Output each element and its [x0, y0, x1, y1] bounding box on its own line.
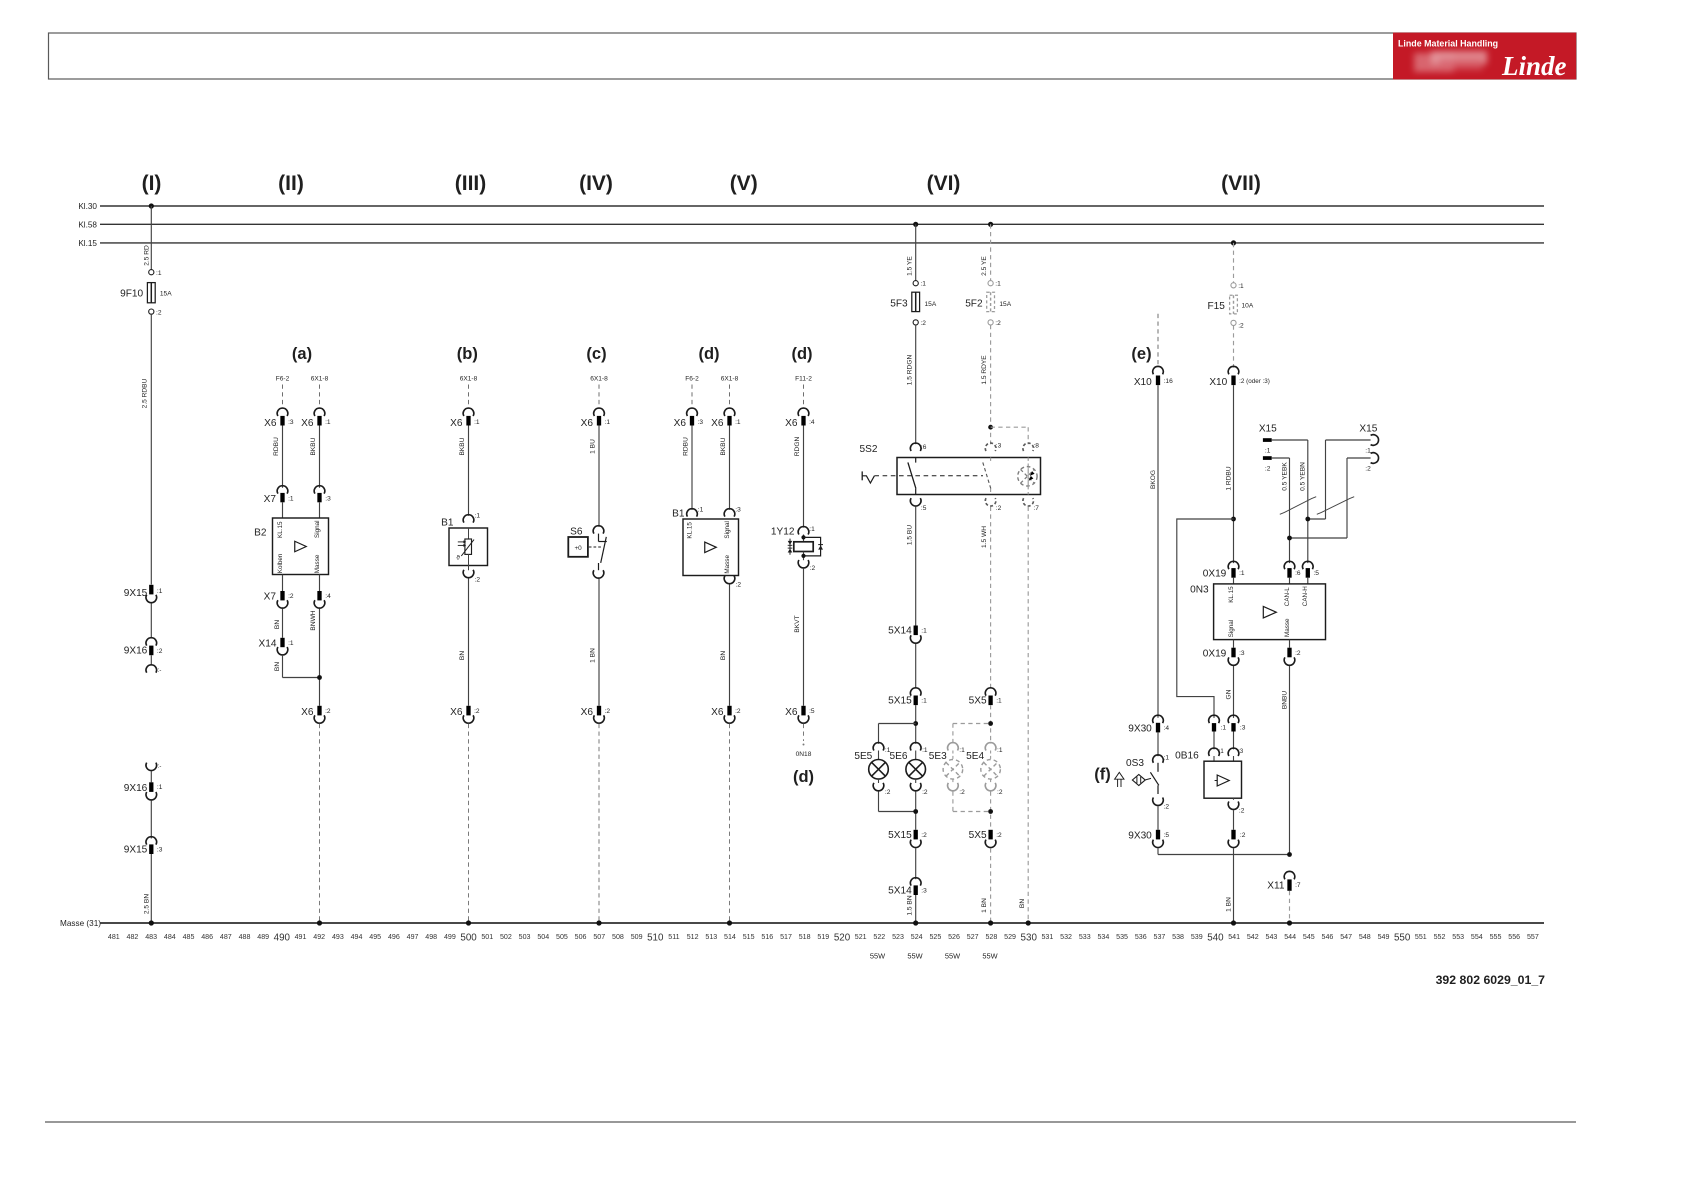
- connector X7 pin :1: [264, 486, 294, 505]
- svg-text:498: 498: [425, 933, 437, 941]
- page link (e): [1157, 314, 1159, 368]
- connector 5X14 pin :3: [888, 878, 927, 897]
- net 6X1-8: [721, 376, 739, 408]
- svg-text:2.5 RD: 2.5 RD: [144, 245, 151, 266]
- svg-text:X6: X6: [711, 707, 724, 718]
- svg-text:(a): (a): [292, 345, 312, 363]
- svg-text:Kl.58: Kl.58: [78, 220, 97, 229]
- svg-text:0.5 YEBK: 0.5 YEBK: [1281, 462, 1288, 491]
- connector X6 pin :1: [301, 408, 331, 429]
- svg-text:554: 554: [1471, 933, 1483, 941]
- wire: [1289, 640, 1291, 648]
- svg-text:497: 497: [407, 933, 419, 941]
- svg-text:9F10: 9F10: [120, 288, 143, 299]
- connector 5X15 pin :1: [888, 688, 927, 707]
- wire BKBU: [459, 426, 468, 516]
- svg-text::2: :2: [922, 789, 928, 796]
- svg-text:541: 541: [1228, 933, 1240, 941]
- svg-text::1: :1: [995, 280, 1001, 287]
- svg-text:9X15: 9X15: [124, 588, 148, 599]
- svg-text:Linde Material Handling: Linde Material Handling: [1398, 39, 1498, 49]
- wire RDGN: [794, 426, 803, 528]
- svg-text::1: :1: [996, 698, 1002, 705]
- svg-text:BN: BN: [720, 651, 727, 660]
- svg-text:BKBU: BKBU: [459, 437, 466, 455]
- wire BN: [459, 578, 468, 705]
- section label (b): [457, 345, 478, 363]
- connector 5X15 pin :2: [888, 830, 927, 848]
- svg-text:X6: X6: [450, 707, 463, 718]
- svg-text:5E4: 5E4: [966, 751, 984, 762]
- svg-text:55W: 55W: [907, 952, 922, 961]
- svg-text:518: 518: [799, 933, 811, 941]
- column header (I): [142, 172, 162, 195]
- connector X6 pin :3: [264, 408, 294, 429]
- svg-text::2: :2: [1265, 465, 1271, 472]
- svg-text:517: 517: [780, 933, 792, 941]
- svg-text:GN: GN: [1225, 689, 1232, 699]
- lamp wattage labels 55W: [870, 952, 998, 961]
- connector pin :3: [1228, 715, 1246, 731]
- svg-text:528: 528: [985, 933, 997, 941]
- lamp 5E3 (optional): [929, 743, 965, 796]
- sensor B2: [254, 518, 328, 575]
- svg-text:6X1-8: 6X1-8: [590, 376, 608, 383]
- svg-text:557: 557: [1527, 933, 1539, 941]
- wire 2.5 RD: [144, 206, 152, 270]
- ground junction 530: [1026, 920, 1031, 925]
- svg-text:0S3: 0S3: [1126, 758, 1144, 769]
- connector X15: [1259, 424, 1277, 473]
- svg-text:X6: X6: [785, 707, 798, 718]
- connector X15 (mating): [1359, 424, 1378, 473]
- svg-text:514: 514: [724, 933, 736, 941]
- wire to ground (page link): [468, 724, 470, 922]
- fuse F15 terminal :2: [1231, 320, 1244, 329]
- svg-text:(V): (V): [730, 172, 758, 195]
- svg-text:RDBU: RDBU: [683, 437, 690, 456]
- connector X6 pin :2: [301, 706, 331, 723]
- svg-text:(II): (II): [278, 172, 304, 195]
- wire RDBU: [273, 426, 282, 488]
- svg-text:521: 521: [855, 933, 867, 941]
- wire: [915, 848, 917, 879]
- svg-text::1: :1: [157, 588, 163, 595]
- connector X6 pin :1: [450, 408, 480, 429]
- wire 1 BU: [590, 426, 599, 527]
- fuse 5F3 terminal :1: [913, 280, 926, 287]
- svg-text::1: :1: [1221, 724, 1227, 731]
- svg-text:X11: X11: [1267, 880, 1285, 891]
- svg-text:BNWH: BNWH: [310, 610, 317, 630]
- connector end :-: [146, 665, 161, 674]
- section label (d): [791, 345, 812, 363]
- svg-text::1: :1: [1219, 749, 1225, 755]
- svg-text:505: 505: [556, 933, 568, 941]
- connector X6 pin :1: [711, 408, 741, 429]
- wire 1.5 BN: [906, 895, 915, 923]
- svg-text::1: :1: [698, 507, 704, 514]
- svg-text:495: 495: [369, 933, 381, 941]
- svg-text:496: 496: [388, 933, 400, 941]
- wire BKVT: [794, 569, 803, 706]
- svg-text::1: :1: [474, 419, 480, 426]
- svg-text:0.5 YEBN: 0.5 YEBN: [1300, 462, 1307, 491]
- column header (V): [730, 172, 758, 195]
- svg-text::-: :-: [158, 764, 162, 770]
- wire BN: [274, 609, 283, 638]
- svg-text:555: 555: [1490, 933, 1502, 941]
- svg-text:5X15: 5X15: [888, 830, 912, 841]
- solenoid valve 1Y12: [771, 526, 823, 572]
- svg-text::1: :1: [997, 747, 1003, 754]
- svg-text:511: 511: [668, 933, 679, 941]
- wire 1.5 BU: [906, 507, 915, 626]
- svg-text:Kl.15: Kl.15: [78, 239, 97, 248]
- svg-text:550: 550: [1394, 933, 1411, 944]
- fuse 9F10 terminal :1: [149, 270, 162, 277]
- wire 1 BN (optional): [981, 848, 990, 921]
- wire: [1213, 732, 1215, 750]
- svg-text:482: 482: [127, 933, 139, 941]
- svg-text:X14: X14: [259, 638, 277, 649]
- connector X6 pin :4: [785, 408, 815, 429]
- svg-text::4: :4: [1164, 725, 1170, 732]
- svg-text:5E3: 5E3: [929, 751, 947, 762]
- connector X10 pin :2: [1209, 366, 1270, 388]
- svg-text:10A: 10A: [1242, 303, 1254, 310]
- svg-text::2: :2: [735, 708, 741, 715]
- svg-text:1.5 BN: 1.5 BN: [906, 895, 913, 915]
- svg-text::1: :1: [922, 747, 928, 754]
- wire GN: [1225, 666, 1233, 718]
- section label (c): [586, 345, 606, 363]
- svg-text:5E6: 5E6: [890, 751, 908, 762]
- svg-text:1.5 RDYE: 1.5 RDYE: [981, 355, 988, 385]
- connector 9X30 pin :5: [1128, 830, 1169, 848]
- svg-text:507: 507: [593, 933, 605, 941]
- wire: [1233, 640, 1235, 648]
- svg-text:(f): (f): [1094, 766, 1110, 784]
- svg-text:5F3: 5F3: [890, 299, 908, 310]
- svg-text::2: :2: [1295, 650, 1301, 657]
- svg-text::1: :1: [288, 496, 294, 503]
- svg-text:BNBU: BNBU: [1281, 691, 1288, 710]
- svg-text::3: :3: [921, 888, 927, 895]
- svg-text:5X14: 5X14: [888, 626, 912, 637]
- svg-text:(VI): (VI): [927, 172, 961, 195]
- connector X6 pin :2: [450, 706, 480, 723]
- svg-text:S6: S6: [570, 527, 583, 538]
- svg-text:499: 499: [444, 933, 456, 941]
- connector X6 pin :2: [711, 706, 741, 723]
- svg-text:Masse: Masse: [314, 554, 321, 573]
- wire BN: [274, 656, 320, 678]
- svg-text::2: :2: [474, 708, 480, 715]
- svg-text::2: :2: [996, 505, 1002, 512]
- svg-text:522: 522: [873, 933, 885, 941]
- svg-text:503: 503: [519, 933, 531, 941]
- ground junction: [727, 920, 732, 925]
- svg-text:15A: 15A: [160, 291, 172, 298]
- svg-text::1: :1: [1239, 570, 1245, 577]
- junction: [913, 721, 918, 726]
- svg-text:2.5 YE: 2.5 YE: [981, 256, 988, 276]
- svg-text:483: 483: [145, 933, 157, 941]
- svg-text:9X16: 9X16: [124, 783, 148, 794]
- connector X7 pin :3: [314, 486, 331, 503]
- svg-text:493: 493: [332, 933, 344, 941]
- ground junction 528: [988, 920, 993, 925]
- connector 9X15 pin :3: [124, 837, 163, 856]
- svg-text::2: :2: [996, 832, 1002, 839]
- svg-text:524: 524: [911, 933, 923, 941]
- svg-text:Signal: Signal: [724, 521, 731, 539]
- svg-text:0N18: 0N18: [796, 751, 812, 758]
- svg-text:523: 523: [892, 933, 904, 941]
- svg-text:549: 549: [1378, 933, 1390, 941]
- wire: [319, 502, 321, 518]
- svg-text:552: 552: [1434, 933, 1446, 941]
- svg-text:55W: 55W: [982, 952, 997, 961]
- bus KL.30: [78, 202, 1544, 211]
- svg-text:B2: B2: [254, 528, 267, 539]
- svg-text:X6: X6: [674, 418, 687, 429]
- junction on KL.30: [149, 203, 154, 208]
- svg-text:ϑ: ϑ: [456, 555, 460, 562]
- connector 9X16 pin :1: [124, 782, 163, 800]
- svg-text:(I): (I): [142, 172, 162, 195]
- svg-text:494: 494: [351, 933, 363, 941]
- svg-text:BKBU: BKBU: [310, 437, 317, 455]
- ground junction 524: [913, 920, 918, 925]
- svg-text:553: 553: [1452, 933, 1464, 941]
- connector 5X14 pin :1: [888, 626, 927, 644]
- svg-text::2: :2: [920, 320, 926, 327]
- svg-text::2: :2: [1238, 323, 1244, 330]
- wire: [150, 604, 152, 638]
- svg-text::2: :2: [885, 789, 891, 796]
- svg-text::3: :3: [698, 419, 704, 426]
- lamp 5E6: [890, 743, 928, 796]
- svg-text:F6-2: F6-2: [685, 376, 699, 383]
- ground junction: [596, 920, 601, 925]
- bottom frame line: [45, 1121, 1576, 1123]
- document number: [1436, 973, 1546, 987]
- svg-text:519: 519: [817, 933, 829, 941]
- column header (II): [278, 172, 304, 195]
- connector X6 pin :2: [581, 706, 611, 723]
- svg-text::4: :4: [809, 419, 815, 426]
- svg-text::5: :5: [809, 708, 815, 715]
- svg-text::1: :1: [809, 526, 815, 533]
- svg-text:5X5: 5X5: [969, 830, 987, 841]
- wire to F15 (optional): [1233, 243, 1235, 283]
- svg-text::2: :2: [1240, 832, 1246, 839]
- wire BKBU: [720, 426, 729, 510]
- ground junction: [466, 920, 471, 925]
- column header (IV): [579, 172, 613, 195]
- svg-text:492: 492: [313, 933, 325, 941]
- svg-text:KL.15: KL.15: [277, 521, 284, 538]
- net 6X1-8: [590, 376, 608, 408]
- svg-text:525: 525: [929, 933, 941, 941]
- svg-text:520: 520: [834, 933, 851, 944]
- svg-text:6X1-8: 6X1-8: [460, 376, 478, 383]
- bus KL.58: [78, 220, 1544, 229]
- svg-text:486: 486: [201, 933, 213, 941]
- svg-text:392 802 6029_01_7: 392 802 6029_01_7: [1436, 973, 1546, 987]
- svg-text:529: 529: [1004, 933, 1016, 941]
- buzzer 0B16: [1175, 748, 1245, 814]
- svg-text:501: 501: [481, 933, 493, 941]
- svg-text:513: 513: [705, 933, 717, 941]
- wire (optional): [953, 792, 991, 830]
- svg-text:551: 551: [1415, 933, 1427, 941]
- svg-text::1: :1: [920, 280, 926, 287]
- svg-text:+0: +0: [574, 545, 582, 552]
- wire RDBU: [683, 426, 692, 510]
- svg-text:481: 481: [108, 933, 120, 941]
- switch 0S3: [1126, 755, 1169, 811]
- svg-text:544: 544: [1284, 933, 1296, 941]
- svg-text:55W: 55W: [945, 952, 960, 961]
- svg-text:X6: X6: [301, 707, 314, 718]
- svg-text:0N3: 0N3: [1190, 585, 1209, 596]
- fuse 5F3: [890, 292, 937, 311]
- wire branch to 5E5: [879, 724, 916, 744]
- svg-text::2: :2: [736, 582, 742, 589]
- svg-text:X6: X6: [581, 418, 594, 429]
- wire: [319, 575, 321, 592]
- svg-text:55W: 55W: [870, 952, 885, 961]
- svg-text::1: :1: [605, 419, 611, 426]
- svg-text:15A: 15A: [999, 301, 1011, 308]
- ground junction 541: [1231, 920, 1236, 925]
- temperature sensor B1: [441, 513, 487, 584]
- wire 0.5 YEBN: [1272, 440, 1308, 563]
- svg-text:548: 548: [1359, 933, 1371, 941]
- svg-text::1: :1: [921, 698, 927, 705]
- svg-text:9X16: 9X16: [124, 645, 148, 656]
- junction on KL.58: [913, 222, 918, 227]
- svg-text:(IV): (IV): [579, 172, 613, 195]
- switch 5S2: [860, 443, 1041, 513]
- svg-text:(d): (d): [793, 768, 814, 786]
- svg-text:(b): (b): [457, 345, 478, 363]
- svg-text:Masse (31): Masse (31): [60, 919, 101, 928]
- svg-text:538: 538: [1172, 933, 1184, 941]
- ground junction 483: [149, 920, 154, 925]
- svg-text:1 BN: 1 BN: [590, 648, 597, 663]
- column header (III): [455, 172, 487, 195]
- switch S6: [568, 526, 607, 578]
- svg-text:6X1-8: 6X1-8: [311, 376, 329, 383]
- svg-text::2: :2: [475, 577, 481, 584]
- svg-text:X15: X15: [1259, 424, 1277, 435]
- wire: [1157, 806, 1159, 830]
- column header (VII): [1221, 172, 1261, 195]
- wire from X15:2: [1290, 458, 1371, 538]
- svg-text:Kolben: Kolben: [277, 553, 284, 573]
- svg-text::1: :1: [921, 628, 927, 635]
- connector 0X19 pin :2: [1284, 648, 1301, 666]
- svg-text:509: 509: [631, 933, 643, 941]
- svg-text:X15: X15: [1359, 424, 1377, 435]
- wire 1 BN: [590, 579, 599, 706]
- connector 0X19 pin :1: [1203, 561, 1245, 579]
- svg-text:BKOG: BKOG: [1150, 470, 1157, 489]
- fuse 9F10 terminal :2: [149, 309, 162, 316]
- svg-text::2: :2: [1164, 804, 1170, 811]
- fuse 5F3 terminal :2: [913, 320, 926, 327]
- control unit 0N3: [1190, 584, 1325, 640]
- wire BN: [720, 584, 729, 705]
- wire to ground (page link): [319, 724, 321, 922]
- wire to Masse junction: [1158, 848, 1290, 854]
- net F6-2: [276, 376, 290, 408]
- twisted pair mark: [1317, 497, 1354, 515]
- svg-text:KL.15: KL.15: [686, 522, 693, 539]
- svg-text:547: 547: [1340, 933, 1352, 941]
- connector 9X15 pin :1: [124, 585, 163, 603]
- wire KL.15 feed to 0B16: [1177, 519, 1234, 718]
- svg-text:5X5: 5X5: [969, 696, 987, 707]
- svg-text:X10: X10: [1134, 377, 1152, 388]
- svg-text:X7: X7: [264, 494, 277, 505]
- svg-text:487: 487: [220, 933, 232, 941]
- column header (VI): [927, 172, 961, 195]
- svg-text:Linde: Linde: [1501, 51, 1567, 81]
- svg-text:1 BN: 1 BN: [981, 898, 988, 913]
- wire: [915, 644, 917, 688]
- connector 0X19 pin :5: [1302, 561, 1319, 577]
- svg-text::1: :1: [1365, 447, 1371, 454]
- wire BKOG: [1150, 385, 1158, 718]
- svg-text:9X15: 9X15: [124, 844, 148, 855]
- svg-text:512: 512: [687, 933, 699, 941]
- svg-text:X10: X10: [1209, 377, 1227, 388]
- wire: [1233, 810, 1235, 830]
- svg-text:X6: X6: [264, 418, 277, 429]
- svg-text:BN: BN: [274, 662, 281, 671]
- svg-text:Signal: Signal: [1228, 620, 1235, 638]
- wire 2.5 YE (optional): [981, 224, 990, 280]
- svg-text::1: :1: [156, 270, 162, 277]
- svg-text:516: 516: [761, 933, 773, 941]
- svg-text::2: :2: [810, 565, 816, 572]
- sensor B1: [672, 507, 741, 589]
- svg-text:489: 489: [257, 933, 269, 941]
- svg-text:6X1-8: 6X1-8: [721, 376, 739, 383]
- svg-text:5S2: 5S2: [860, 444, 878, 455]
- twisted pair mark: [1280, 497, 1316, 515]
- svg-text:X7: X7: [264, 592, 277, 603]
- wire: [879, 792, 916, 830]
- svg-text::3: :3: [1240, 724, 1246, 731]
- wire (optional): [990, 705, 992, 744]
- wire: [150, 771, 152, 782]
- connector 5X5 pin :1: [969, 688, 1002, 707]
- svg-text:0X19: 0X19: [1203, 648, 1227, 659]
- svg-text::3: :3: [157, 847, 163, 854]
- svg-text:504: 504: [537, 933, 549, 941]
- svg-text:Masse: Masse: [1284, 618, 1291, 637]
- svg-text:X6: X6: [785, 418, 798, 429]
- svg-text::4: :4: [325, 593, 331, 600]
- wire: [282, 502, 284, 518]
- svg-text::1: :1: [288, 640, 294, 647]
